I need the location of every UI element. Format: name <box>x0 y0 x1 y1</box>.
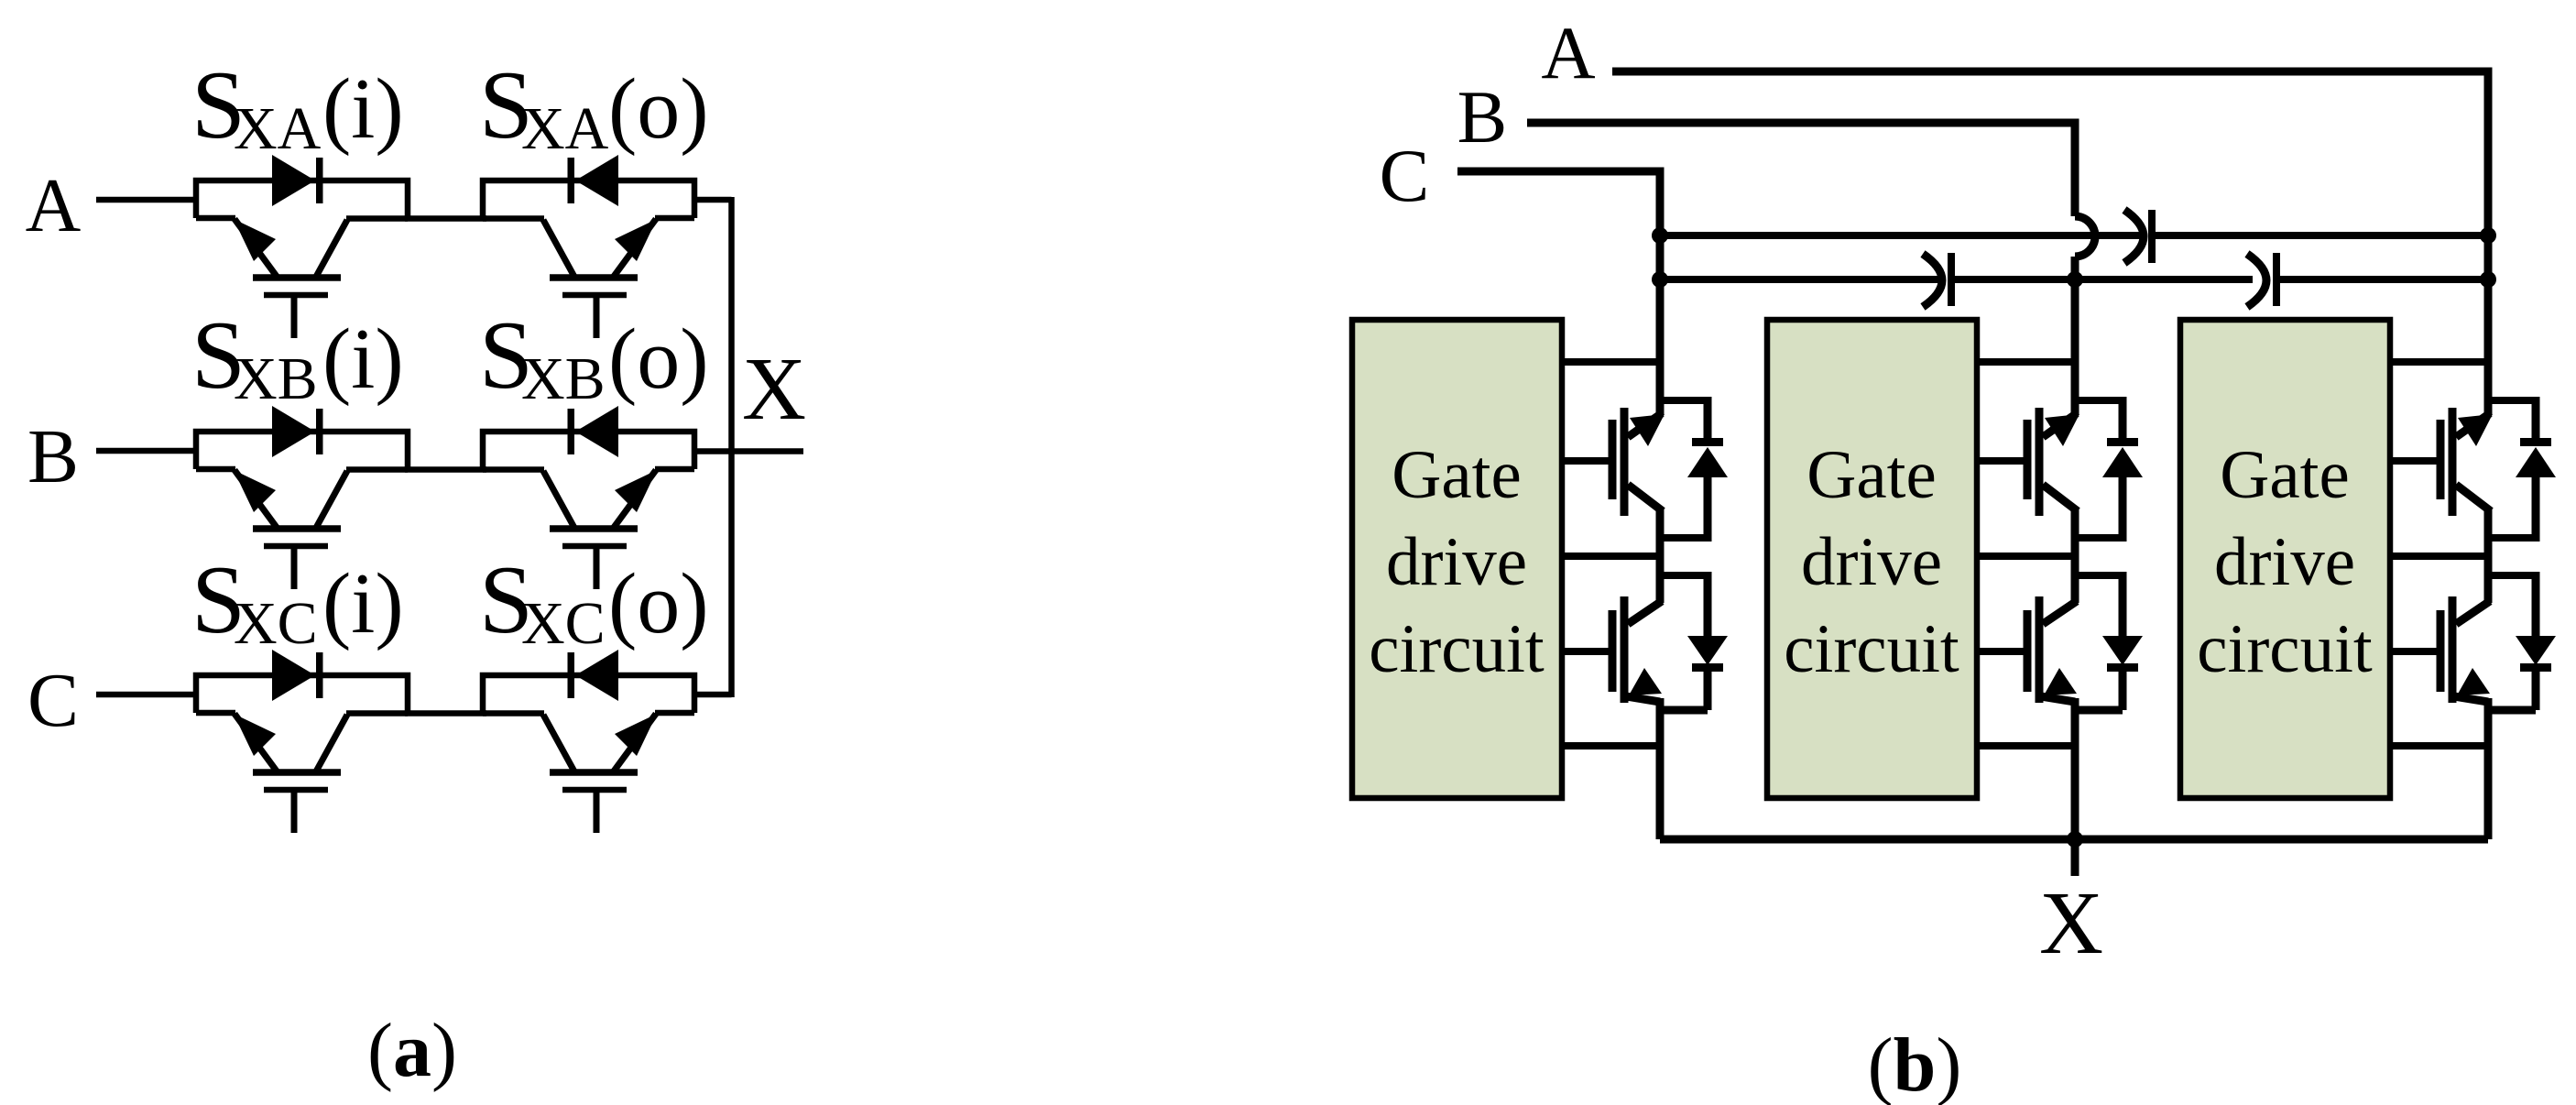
svg-text:X: X <box>2039 874 2103 972</box>
svg-text:(b): (b) <box>1868 1023 1962 1105</box>
svg-text:X: X <box>742 340 806 438</box>
svg-text:C: C <box>1380 134 1430 217</box>
svg-text:A: A <box>1541 11 1595 94</box>
svg-text:B: B <box>1457 75 1508 159</box>
svg-text:B: B <box>27 414 79 499</box>
svg-text:A: A <box>26 163 82 248</box>
svg-text:C: C <box>27 658 79 743</box>
svg-text:(a): (a) <box>367 1008 457 1093</box>
